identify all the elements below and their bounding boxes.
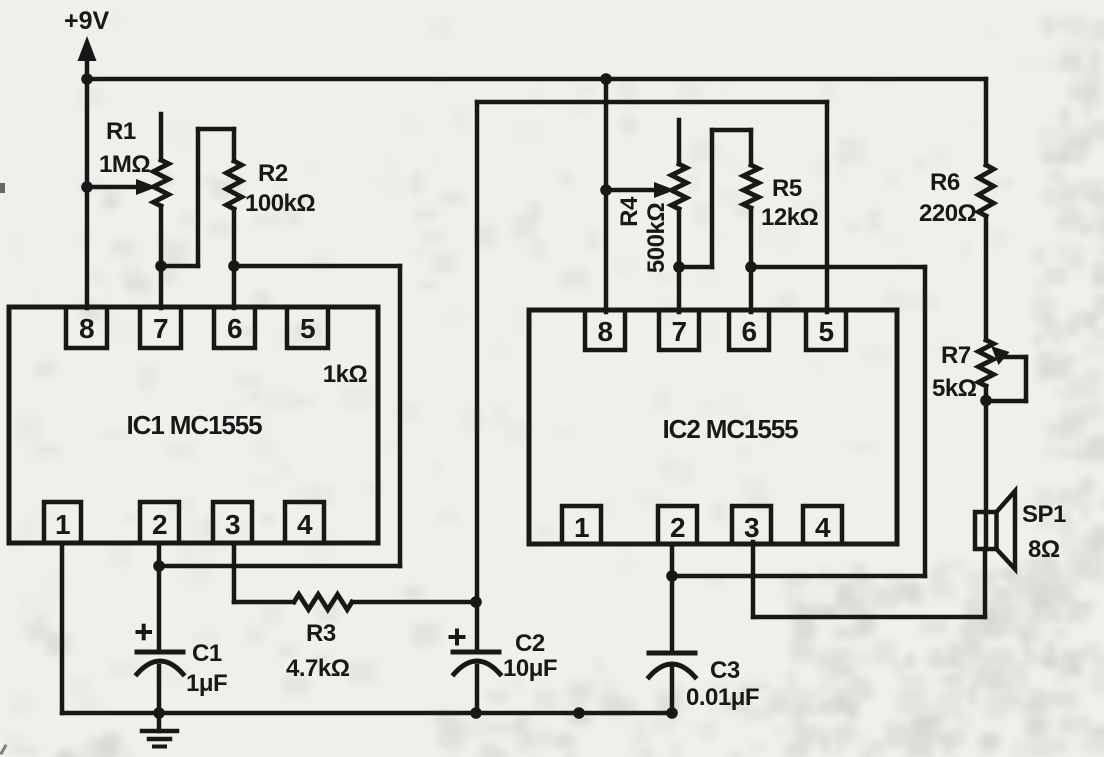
svg-text:R2: R2 [258, 160, 288, 187]
svg-text:6: 6 [227, 313, 242, 344]
svg-text:500kΩ: 500kΩ [643, 203, 670, 273]
svg-text:4: 4 [297, 509, 313, 540]
svg-text:R5: R5 [772, 175, 802, 202]
svg-text:8: 8 [597, 316, 612, 347]
svg-text:12kΩ: 12kΩ [761, 204, 819, 231]
svg-text:5: 5 [300, 313, 315, 344]
svg-text:0.01μF: 0.01μF [686, 684, 759, 711]
svg-text:+9V: +9V [64, 7, 110, 35]
svg-text:C3: C3 [710, 657, 740, 684]
svg-text:R6: R6 [930, 169, 960, 196]
svg-text:1MΩ: 1MΩ [99, 151, 150, 178]
svg-text:5kΩ: 5kΩ [932, 375, 977, 402]
svg-text:7: 7 [153, 313, 168, 344]
svg-text:2: 2 [670, 512, 685, 543]
svg-text:C1: C1 [192, 640, 222, 667]
svg-text:7: 7 [671, 316, 686, 347]
svg-text:1μF: 1μF [186, 670, 227, 697]
svg-text:R1: R1 [106, 118, 136, 145]
svg-text:R4: R4 [616, 196, 643, 227]
svg-text:1: 1 [55, 509, 70, 540]
svg-text:1: 1 [574, 512, 589, 543]
svg-text:10μF: 10μF [503, 655, 557, 682]
svg-text:4: 4 [815, 512, 831, 543]
svg-text:3: 3 [225, 509, 240, 540]
svg-text:SP1: SP1 [1022, 501, 1066, 528]
svg-text:IC1 MC1555: IC1 MC1555 [127, 410, 263, 440]
svg-text:2: 2 [152, 509, 167, 540]
svg-text:220Ω: 220Ω [919, 200, 977, 227]
svg-text:C2: C2 [515, 630, 545, 657]
svg-text:8: 8 [79, 313, 94, 344]
svg-text:IC2 MC1555: IC2 MC1555 [663, 414, 799, 444]
svg-text:1kΩ: 1kΩ [323, 361, 368, 388]
svg-text:3: 3 [744, 512, 759, 543]
svg-text:8Ω: 8Ω [1028, 536, 1060, 563]
svg-text:4.7kΩ: 4.7kΩ [286, 655, 350, 682]
svg-text:R7: R7 [941, 342, 971, 369]
svg-text:100kΩ: 100kΩ [245, 190, 315, 217]
svg-text:R3: R3 [306, 620, 336, 647]
svg-text:5: 5 [818, 316, 833, 347]
svg-text:6: 6 [741, 316, 756, 347]
